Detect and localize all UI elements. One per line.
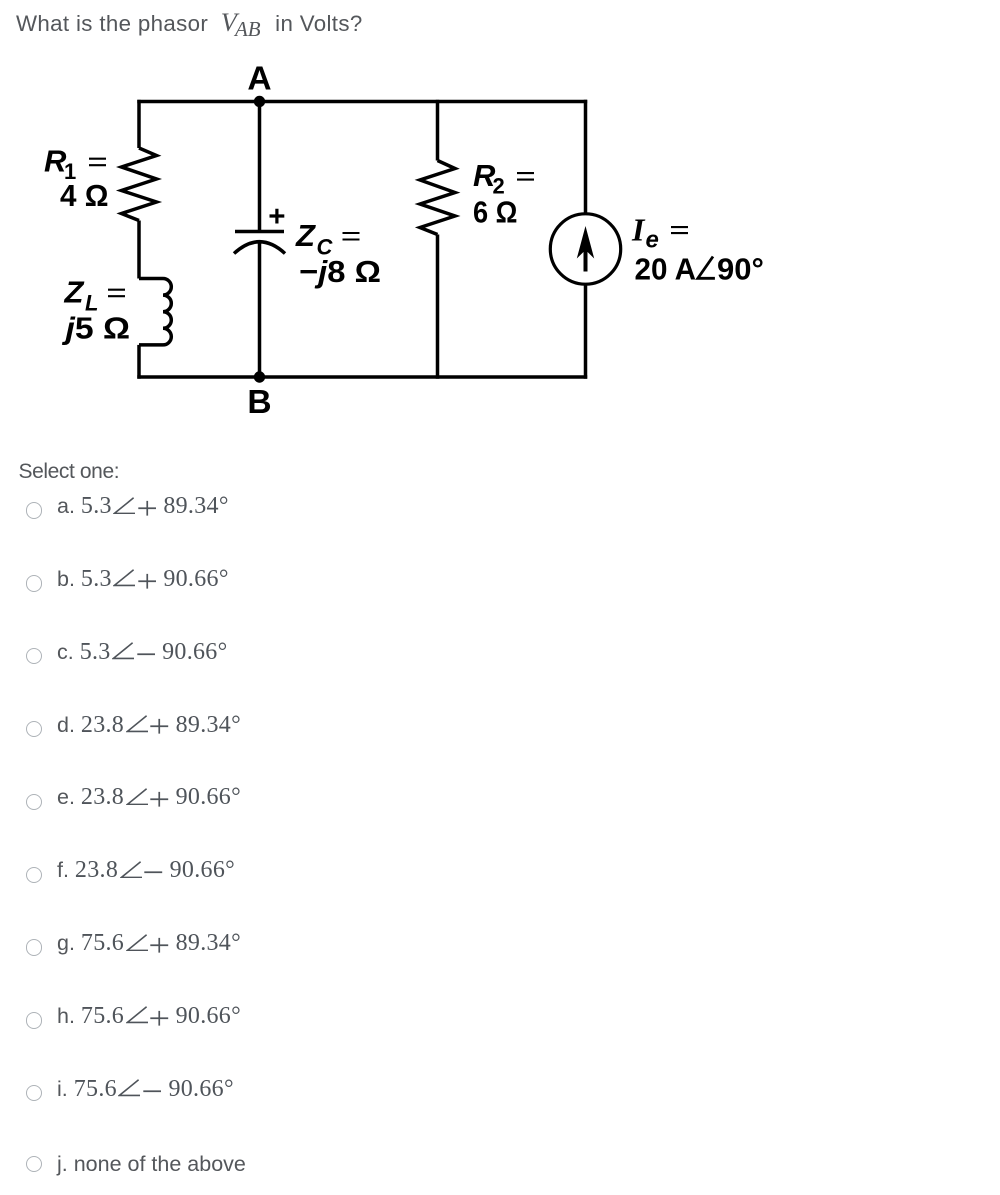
top wire bbox=[137, 100, 587, 104]
option i bbox=[0, 1076, 234, 1103]
option d bbox=[0, 712, 241, 739]
capacitor ZC bottom plate bbox=[234, 242, 285, 254]
plus polarity mark bbox=[270, 209, 285, 224]
option c bbox=[0, 639, 227, 666]
capacitor branch upper wire bbox=[258, 102, 262, 232]
source branch upper wire bbox=[584, 100, 588, 215]
question title bbox=[16, 7, 363, 42]
node A junction dot bbox=[254, 96, 265, 107]
svg-text:4 Ω: 4 Ω bbox=[60, 178, 109, 213]
node B junction dot bbox=[254, 371, 265, 382]
svg-text:e: e bbox=[646, 227, 659, 254]
bottom wire bbox=[137, 375, 587, 379]
current source arrow bbox=[584, 243, 588, 272]
svg-text:6 Ω: 6 Ω bbox=[473, 195, 518, 230]
svg-text:20 A: 20 A bbox=[635, 252, 697, 287]
svg-text:Z: Z bbox=[64, 275, 85, 310]
option f bbox=[0, 857, 235, 884]
capacitor branch lower wire bbox=[258, 242, 262, 377]
angle symbol in source label bbox=[698, 257, 715, 279]
resistor R2 bbox=[420, 161, 455, 235]
option e bbox=[0, 784, 241, 811]
wire between R1 and ZL bbox=[137, 221, 141, 279]
svg-text:j5 Ω: j5 Ω bbox=[61, 311, 130, 346]
inductor ZL bbox=[139, 279, 171, 345]
option h bbox=[0, 1003, 241, 1030]
resistor R1 bbox=[122, 148, 157, 221]
option g bbox=[0, 930, 241, 957]
current source Ie circle bbox=[550, 214, 620, 284]
svg-text:A: A bbox=[247, 61, 271, 98]
source branch lower wire bbox=[584, 283, 588, 379]
capacitor ZC top plate bbox=[235, 230, 284, 234]
left branch upper wire bbox=[137, 100, 141, 148]
svg-text:Z: Z bbox=[295, 218, 316, 253]
svg-text:B: B bbox=[247, 384, 271, 421]
R2 branch upper wire bbox=[436, 100, 440, 161]
svg-text:−j8 Ω: −j8 Ω bbox=[299, 254, 381, 289]
select one bbox=[19, 460, 120, 484]
R2 branch lower wire bbox=[436, 235, 440, 379]
option j bbox=[0, 1152, 246, 1177]
circuit figure bbox=[0, 40, 800, 430]
option a bbox=[0, 493, 228, 520]
svg-text:90°: 90° bbox=[717, 252, 764, 287]
svg-text:I: I bbox=[631, 212, 646, 248]
left branch lower wire bbox=[137, 345, 141, 379]
option b bbox=[0, 566, 228, 593]
